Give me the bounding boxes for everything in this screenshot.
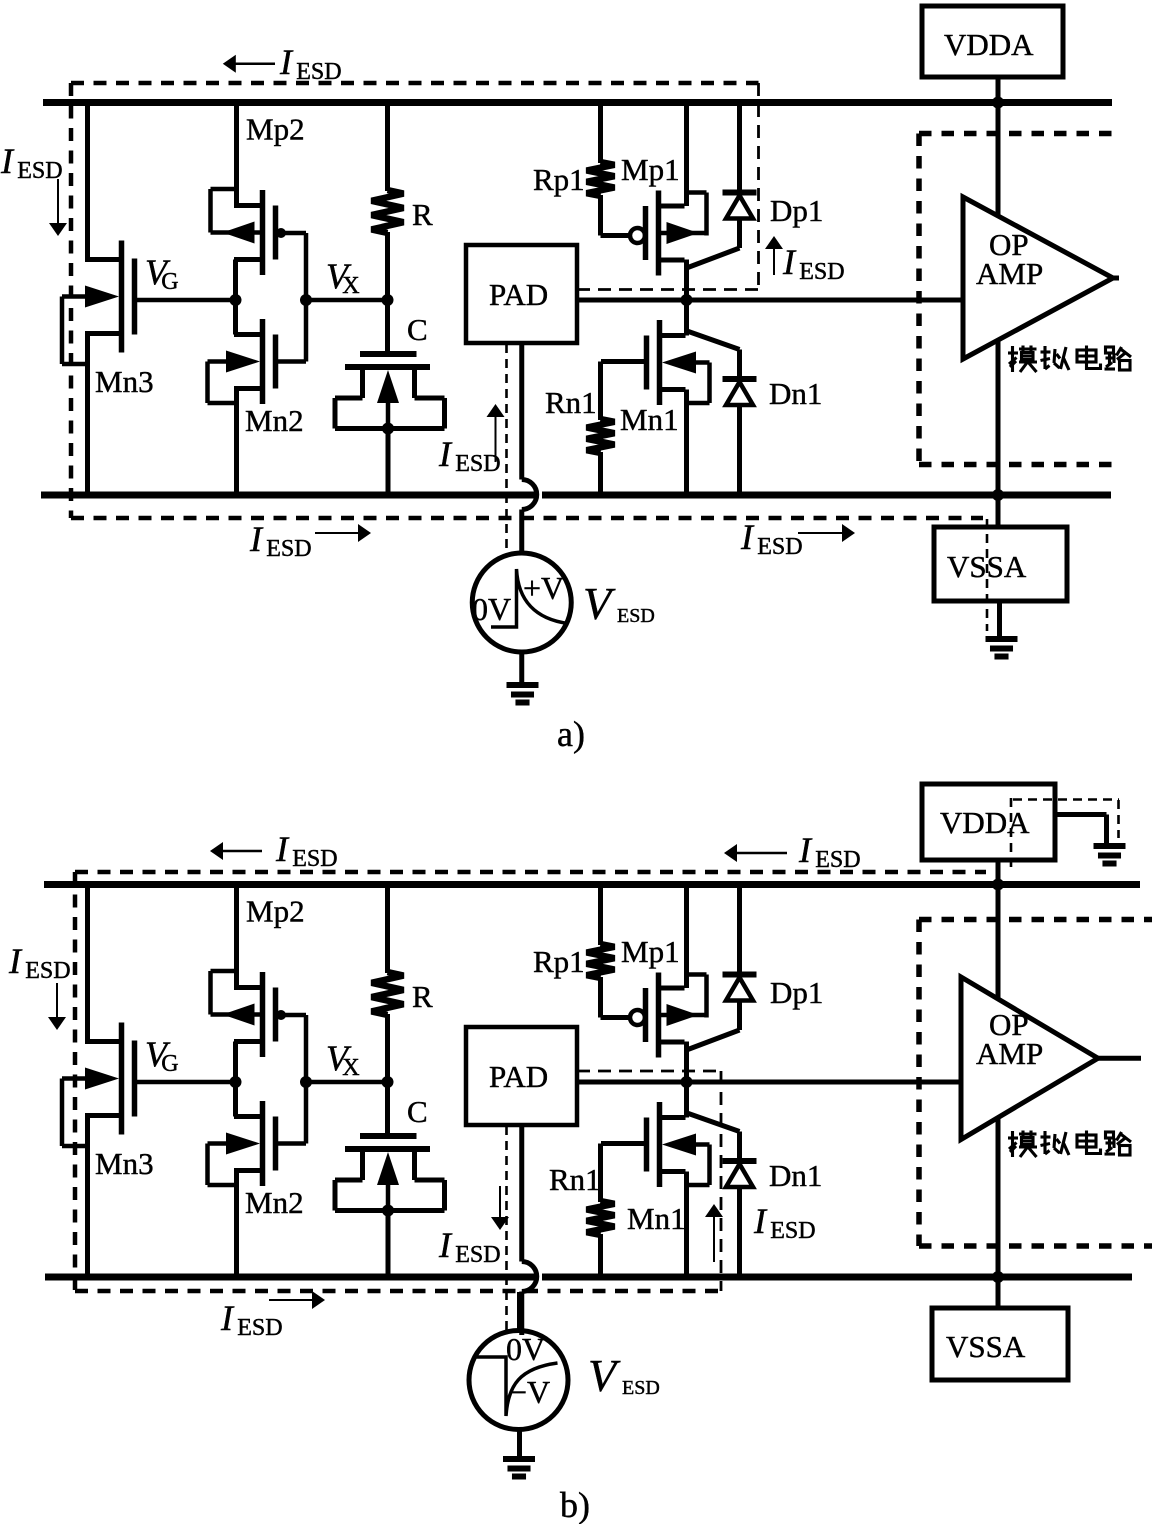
svg-text:PAD: PAD: [489, 1059, 548, 1094]
ground symbol below VSSA: [986, 636, 1018, 642]
dashed ESD current path, inner edge below PAD wire: [577, 1070, 721, 1073]
wire Mp2 source to VDD rail: [234, 103, 239, 206]
wire Dn1 anode to VSS rail: [737, 405, 742, 496]
svg-text:I: I: [753, 1201, 768, 1241]
junction dot VDDA-rail: [992, 97, 1004, 109]
wire dashes to ESD source: [517, 1292, 522, 1331]
resistor Rn1 (a): [587, 419, 615, 453]
wire VDDA to ground bracket: [1055, 812, 1107, 817]
svg-text:Mp2: Mp2: [246, 894, 305, 929]
wire ESD source to ground: [519, 652, 524, 686]
Mp1 gate bubble: [630, 228, 645, 243]
wire Mp1 source to VDD rail: [684, 885, 689, 989]
svg-text:a): a): [557, 714, 585, 754]
wire Mn1 bulk tie to source: [707, 1145, 712, 1186]
wire op-amp output stub: [1113, 276, 1119, 281]
Mp1 gate bubble: [630, 1010, 645, 1025]
svg-text:Dn1: Dn1: [769, 1158, 822, 1193]
svg-text:Rn1: Rn1: [545, 385, 597, 420]
wire Mn1 drain to PAD node: [684, 300, 689, 336]
svg-text:I: I: [438, 1225, 453, 1265]
wire inverter input: Mp2/Mn2 gates to VX node: [276, 1013, 307, 1018]
svg-text:I: I: [279, 42, 294, 82]
junction dot capacitor bottom: [382, 1205, 394, 1217]
resistor R (b): [372, 972, 404, 1015]
IESD arrow bottom left: [269, 1299, 313, 1301]
resistor Rp1 (b): [587, 944, 615, 978]
svg-text:Rn1: Rn1: [549, 1162, 601, 1197]
IESD arrow up at Dn1: [713, 1216, 715, 1262]
VSSA box (a): [934, 527, 1067, 601]
svg-text:ESD: ESD: [617, 605, 655, 627]
svg-text:Rp1: Rp1: [533, 162, 585, 197]
ground symbol below ESD source (a): [507, 682, 539, 688]
junction dot opamp-VSS-rail: [992, 489, 1004, 501]
wire Mn2 bulk tie: [205, 1144, 210, 1186]
svg-text:I: I: [740, 517, 755, 557]
dashed analog circuit box, left edge: [916, 920, 922, 1247]
ESD pulse waveform (+V): [491, 569, 568, 627]
transistor Mp1 (b): [656, 973, 662, 1058]
wire VX node down to capacitor C: [385, 300, 390, 354]
svg-text:R: R: [412, 197, 433, 232]
wire Mp1 bulk tie to source: [704, 975, 709, 1018]
wire Dp1 cathode to VDD rail: [737, 885, 742, 975]
transistor Mp2 (b): [260, 972, 266, 1057]
svg-text:I: I: [438, 434, 453, 474]
svg-text:X: X: [342, 1055, 359, 1081]
wire Rp1 top to VDD rail: [598, 103, 603, 164]
ground symbol beside VDDA: [1094, 843, 1126, 849]
wire hop over VSS rail: [522, 480, 537, 510]
diode Dp1 (b): [723, 972, 757, 978]
svg-text:ESD: ESD: [799, 259, 844, 285]
IESD arrow bottom left: [315, 532, 359, 534]
capacitor C - MOS capacitor (a): [360, 351, 417, 357]
wire Mn1 source to VSS rail: [684, 1172, 689, 1278]
wire hop to ESD source: [519, 510, 524, 554]
wire Mp2 bulk tie to source: [208, 189, 213, 233]
svg-text:Mp1: Mp1: [621, 152, 680, 187]
svg-text:V: V: [583, 578, 616, 629]
wire PAD to OP AMP input: [577, 1080, 963, 1085]
label: analog circuit (CJK): [1011, 1131, 1014, 1157]
wire Dp1 cathode to VDD rail: [737, 103, 742, 193]
thin dashed ESD path through PAD: [505, 1126, 508, 1332]
wire Mn3 bulk tie: [60, 1079, 65, 1147]
transistor Mn3 (a): [119, 241, 125, 353]
wire Mp2 source to VDD rail: [234, 885, 239, 988]
dashed ESD current path, left edge: [69, 83, 74, 518]
IESD arrow top left: [222, 850, 262, 853]
wire VSS rail to VSSA box: [996, 495, 1001, 527]
wire Rn1 bottom to VSS rail: [598, 1234, 603, 1277]
wire ESD source to ground: [517, 1430, 522, 1460]
IESD arrow up at Dp1: [773, 247, 775, 275]
svg-text:ESD: ESD: [770, 1218, 815, 1244]
svg-text:Mn3: Mn3: [95, 364, 154, 399]
junction dot opamp-VSS-rail: [992, 1271, 1004, 1283]
svg-text:Mn1: Mn1: [627, 1201, 686, 1236]
PAD box (b): [466, 1027, 577, 1125]
svg-text:ESD: ESD: [815, 847, 860, 873]
svg-text:ESD: ESD: [17, 158, 62, 184]
svg-text:Mp2: Mp2: [246, 112, 305, 147]
wire Mn2 source to VSS rail: [234, 1168, 263, 1173]
svg-text:Dn1: Dn1: [769, 376, 822, 411]
wire Dn1 cathode diagonal to Mn1 drain: [687, 1113, 740, 1132]
wire Mn1 drain to PAD node: [684, 1082, 689, 1118]
wire inverter output: Mp2 drain to Mn2 drain through VG node: [233, 1042, 238, 1117]
dashed ESD current path, bottom edge: [71, 516, 983, 521]
wire: VSSA ground rail (bottom), left of PAD-wire hop: [41, 492, 536, 499]
resistor Rp1 (a): [587, 162, 615, 196]
wire Mn3 drain to VDD rail: [85, 103, 90, 263]
wire hop over VSS rail: [522, 1262, 537, 1292]
wire inverter output: Mp2 drain to Mn2 drain through VG node: [233, 260, 238, 335]
IESD arrow left down: [56, 983, 58, 1018]
wire Mn1 gate to Rn1: [601, 359, 647, 364]
VDDA box (a): [922, 6, 1063, 77]
junction dot Mp2 gate stub: [276, 228, 286, 238]
svg-text:ESD: ESD: [296, 59, 341, 85]
wire Rn1 bottom to VSS rail: [598, 452, 603, 495]
junction dot capacitor bottom: [382, 423, 394, 435]
svg-text:VDDA: VDDA: [940, 805, 1030, 840]
wire Mn2 source to VSS rail: [234, 386, 263, 391]
svg-text:ESD: ESD: [25, 958, 70, 984]
dashed ESD current path, left edge: [73, 872, 78, 1291]
svg-text:G: G: [161, 1051, 178, 1077]
svg-text:Dp1: Dp1: [770, 193, 823, 228]
svg-text:Rp1: Rp1: [533, 944, 585, 979]
svg-text:AMP: AMP: [976, 256, 1043, 291]
svg-text:0V: 0V: [506, 1331, 545, 1367]
transistor Mn3 (b): [119, 1023, 125, 1135]
svg-text:VSSA: VSSA: [946, 1329, 1026, 1364]
svg-text:I: I: [8, 941, 23, 981]
wire: VSSA ground rail (bottom), right of PAD-wire hop: [542, 1274, 1132, 1281]
junction dot PAD node: [681, 1076, 693, 1088]
wire Mn1 gate to Rn1: [601, 1141, 647, 1146]
svg-text:Mp1: Mp1: [621, 934, 680, 969]
ESD pulse waveform (-V): [475, 1357, 558, 1416]
wire capacitor to VSS rail: [386, 429, 391, 496]
resistor Rn1 (b): [587, 1201, 615, 1235]
wire VSS rail to VSSA box: [996, 1277, 1001, 1308]
wire node VG: Mn3 gate to inverter output: [133, 1080, 234, 1085]
wire Dp1 anode: [737, 1000, 742, 1030]
label: analog circuit (CJK): [1011, 346, 1014, 372]
wire Mn1 source to VSS rail: [684, 390, 689, 496]
dashed analog circuit box, left edge: [916, 134, 922, 465]
wire Dp1 anode diagonal to Mp1 drain: [687, 248, 740, 268]
svg-text:R: R: [412, 979, 433, 1014]
wire PAD down to ESD source: [519, 343, 524, 480]
wire Dn1 anode to VSS rail: [737, 1187, 742, 1278]
dashed analog circuit box, bottom edge: [919, 1243, 1152, 1249]
PAD box (a): [466, 245, 577, 343]
wire Mn3 source to VSS rail: [85, 1113, 122, 1118]
resistor R (a): [372, 190, 404, 233]
transistor Mp2 (a): [260, 190, 266, 275]
dashed ESD current path, right edge at x=758: [757, 83, 760, 290]
svg-text:I: I: [220, 1298, 235, 1338]
dashed ESD current path, bottom edge: [75, 1289, 721, 1294]
wire Rp1 top to VDD rail: [598, 885, 603, 946]
IESD arrow left down: [57, 179, 59, 224]
wire VSSA to ground: [997, 601, 1002, 637]
IESD arrow top right: [736, 852, 787, 855]
VDDA box (b): [922, 784, 1055, 860]
dashed ESD current path, top edge: [75, 870, 986, 875]
wire Dp1 anode: [737, 218, 742, 248]
svg-text:X: X: [342, 273, 359, 299]
wire op-amp power to VSS rail: [996, 1118, 1001, 1278]
svg-text:ESD: ESD: [622, 1377, 660, 1399]
wire Mp1 source to VDD rail: [684, 103, 689, 207]
junction dot VX right: [382, 1076, 394, 1088]
thin dashed ESD path through VDDA: [1010, 798, 1013, 871]
IESD arrow top left: [235, 63, 275, 66]
wire PAD down to ESD source: [519, 1125, 524, 1262]
svg-text:I: I: [249, 519, 264, 559]
ESD voltage source circle (a): [472, 553, 571, 652]
IESD arrow up at PAD column: [495, 416, 497, 462]
wire: VSSA ground rail (bottom), right of PAD-wire hop: [542, 492, 1111, 499]
junction dot VG node: [230, 294, 242, 306]
wire R top to VDD rail: [385, 885, 390, 974]
wire Rp1 bottom to Mp1 gate: [598, 977, 603, 1018]
wire Mn3 drain to VDD rail: [85, 885, 90, 1045]
svg-text:ESD: ESD: [757, 534, 802, 560]
svg-text:G: G: [161, 269, 178, 295]
wire R top to VDD rail: [385, 103, 390, 192]
transistor Mn1 (b): [657, 1102, 663, 1187]
wire Dn1 cathode: [737, 1132, 742, 1162]
thin dashed ESD path through VSSA: [986, 519, 989, 631]
svg-text:b): b): [560, 1485, 590, 1524]
junction dot VX left: [300, 294, 312, 306]
thin dashed ESD path through PAD: [505, 344, 508, 552]
wire PAD to OP AMP input: [577, 298, 963, 303]
wire: VSSA ground rail (bottom), left of PAD-wire hop: [45, 1274, 536, 1281]
wire Mp2 bulk tie to source: [208, 971, 213, 1015]
svg-text:PAD: PAD: [489, 277, 548, 312]
op-amp U1 (b): [961, 977, 1098, 1140]
svg-text:ESD: ESD: [237, 1315, 282, 1341]
wire Dn1 cathode diagonal to Mn1 drain: [687, 331, 740, 350]
wire op-amp output stub: [1098, 1056, 1141, 1061]
wire hop to ESD source: [519, 1292, 524, 1336]
svg-text:C: C: [407, 312, 428, 347]
svg-text:AMP: AMP: [976, 1036, 1043, 1071]
wire Mn2 bulk tie: [205, 362, 210, 404]
svg-text:Mn2: Mn2: [245, 403, 304, 438]
svg-text:I: I: [798, 830, 813, 870]
wire R bottom to VX node: [385, 1014, 390, 1082]
junction dot VG node: [230, 1076, 242, 1088]
dashed analog circuit box, top edge: [919, 131, 1116, 137]
dashed ESD current path, inner edge above PAD wire: [577, 288, 759, 291]
svg-text:Mn3: Mn3: [95, 1146, 154, 1181]
ESD voltage source circle (b): [469, 1331, 568, 1430]
svg-text:+V: +V: [523, 570, 564, 606]
dashed analog circuit box, top edge: [919, 917, 1152, 923]
svg-text:ESD: ESD: [455, 451, 500, 477]
junction dot VX right: [382, 294, 394, 306]
wire op-amp power to VSS rail: [996, 340, 1001, 495]
IESD arrow bottom right: [798, 532, 843, 534]
junction dot PAD node: [681, 294, 693, 306]
junction dot Mp2 gate stub: [276, 1010, 286, 1020]
wire node VX: [306, 1080, 388, 1085]
junction dot VDDA-rail: [992, 879, 1004, 891]
diode Dn1 (a): [723, 376, 757, 382]
svg-text:ESD: ESD: [455, 1242, 500, 1268]
diode Dp1 (a): [723, 190, 757, 196]
transistor Mn1 (a): [657, 320, 663, 405]
svg-text:ESD: ESD: [266, 536, 311, 562]
transistor Mn2 (a): [260, 319, 266, 404]
wire: VDDA supply rail (top): [44, 881, 1140, 888]
wire capacitor to VSS rail: [386, 1211, 391, 1278]
wire VDDA to rail and op-amp: [996, 77, 1001, 216]
wire inverter input: Mp2/Mn2 gates to VX node: [276, 231, 307, 236]
wire VX node down to capacitor C: [385, 1082, 390, 1136]
VSSA box (b): [932, 1308, 1068, 1380]
IESD arrow down at PAD column: [499, 1186, 501, 1218]
transistor Mp1 (a): [656, 191, 662, 276]
wire: VDDA supply rail (top): [43, 99, 1112, 106]
wire node VG: Mn3 gate to inverter output: [133, 298, 234, 303]
wire node VX: [306, 298, 388, 303]
wire Mp1 drain to PAD node: [684, 1042, 689, 1083]
wire VDDA to rail and op-amp: [996, 860, 1001, 999]
svg-text:I: I: [782, 242, 797, 282]
capacitor C - MOS capacitor (b): [360, 1133, 417, 1139]
transistor Mn2 (b): [260, 1101, 266, 1186]
svg-text:VDDA: VDDA: [944, 27, 1034, 62]
op-amp U1 (a): [963, 197, 1113, 359]
svg-text:I: I: [275, 829, 290, 869]
wire Mn1 bulk tie to source: [707, 363, 712, 404]
diode Dn1 (b): [723, 1158, 757, 1164]
svg-text:−V: −V: [509, 1374, 550, 1410]
dashed ESD current path, right edge at x=721: [720, 1071, 723, 1291]
dashed ESD current path, top edge: [71, 81, 759, 86]
ground symbol below ESD source (b): [503, 1456, 535, 1462]
wire Rp1 bottom to Mp1 gate: [598, 195, 603, 236]
svg-text:Mn2: Mn2: [245, 1185, 304, 1220]
wire Mp1 bulk tie to source: [704, 193, 709, 236]
wire Mn3 bulk tie: [60, 297, 65, 365]
dashed analog circuit box, bottom edge: [919, 462, 1117, 468]
svg-text:0V: 0V: [472, 591, 511, 627]
junction dot VX left: [300, 1076, 312, 1088]
svg-text:C: C: [407, 1094, 428, 1129]
svg-text:ESD: ESD: [292, 846, 337, 872]
wire Mp1 drain to PAD node: [684, 260, 689, 301]
wire Mn3 source to VSS rail: [85, 331, 122, 336]
svg-text:Dp1: Dp1: [770, 975, 823, 1010]
wire Dp1 anode diagonal to Mp1 drain: [687, 1030, 740, 1050]
svg-text:I: I: [0, 141, 15, 181]
svg-text:V: V: [588, 1350, 621, 1401]
svg-text:Mn1: Mn1: [620, 402, 679, 437]
wire R bottom to VX node: [385, 232, 390, 300]
wire Dn1 cathode: [737, 350, 742, 380]
